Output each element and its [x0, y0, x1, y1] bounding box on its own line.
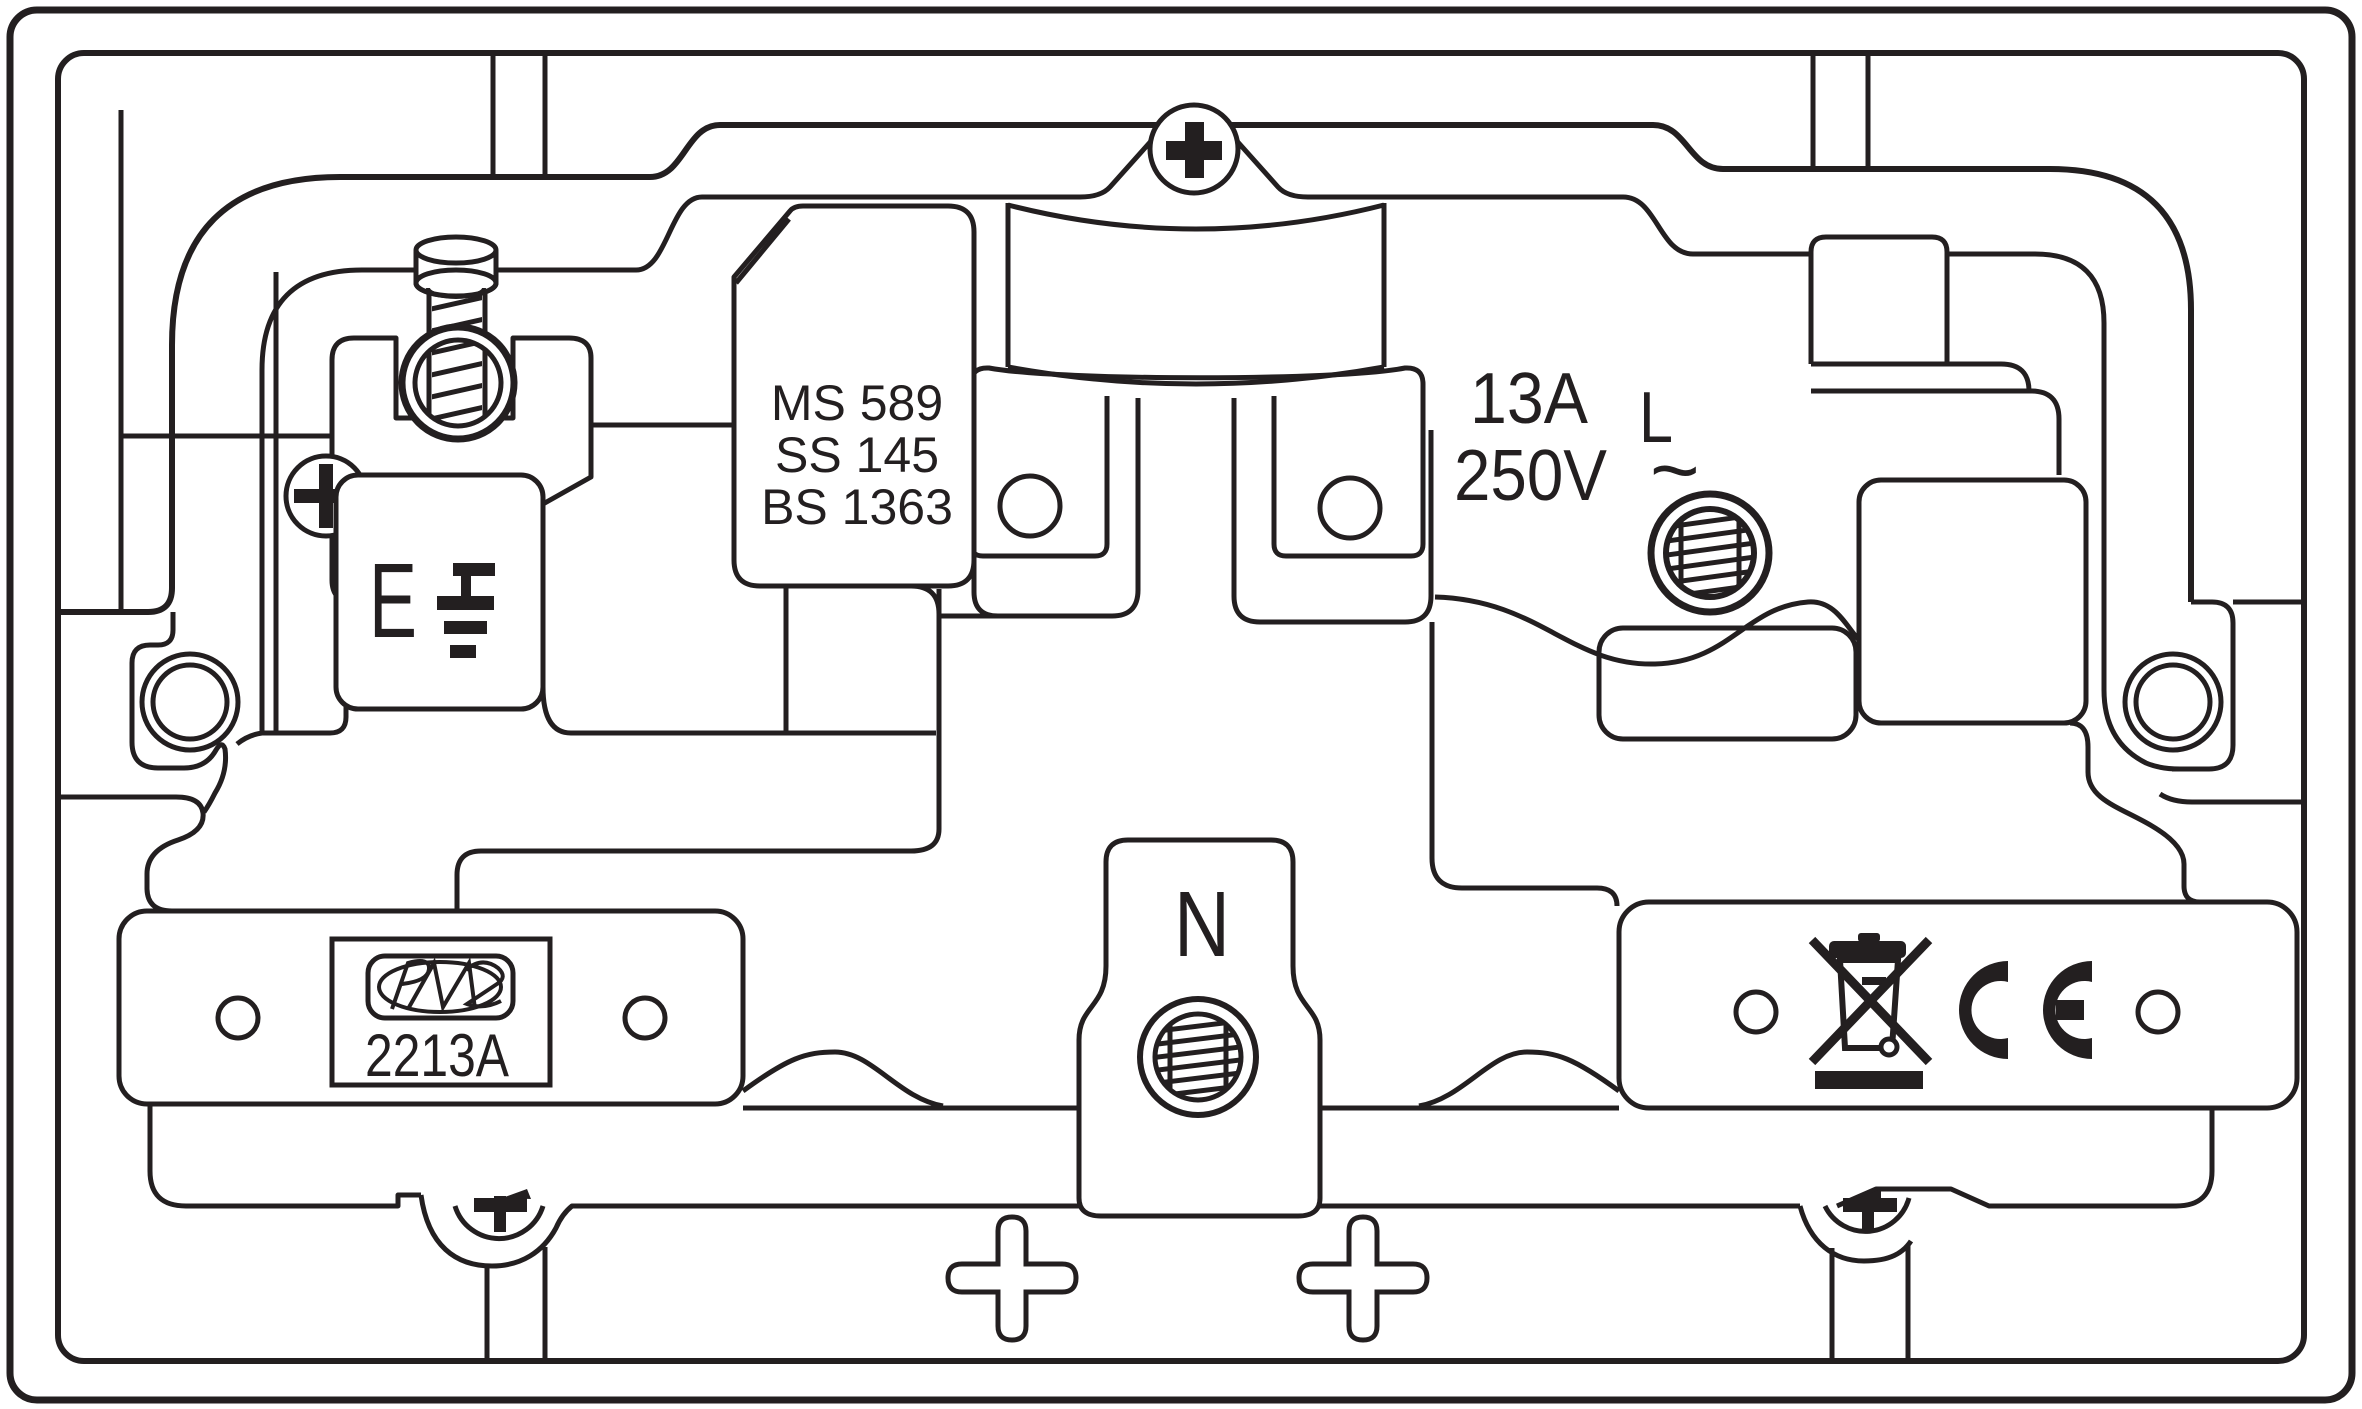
svg-text:2213A: 2213A [365, 1022, 509, 1089]
svg-text:SS 145: SS 145 [775, 427, 939, 483]
svg-text:E: E [369, 542, 417, 660]
svg-text:MS 589: MS 589 [771, 375, 943, 431]
svg-text:13A: 13A [1470, 359, 1588, 439]
svg-text:250V: 250V [1454, 436, 1607, 516]
svg-text:~: ~ [1650, 423, 1700, 518]
svg-text:BS 1363: BS 1363 [761, 479, 953, 535]
svg-text:N: N [1174, 872, 1230, 976]
